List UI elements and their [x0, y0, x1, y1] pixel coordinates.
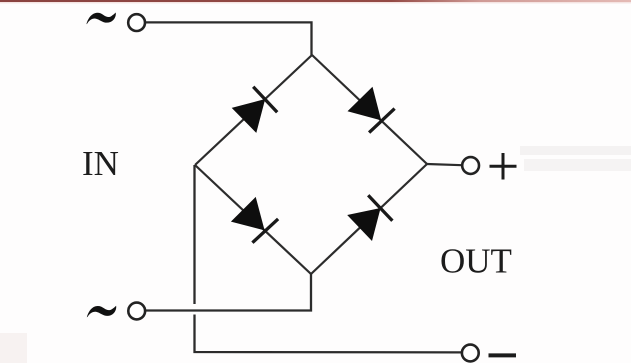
terminal - output: [462, 345, 479, 362]
diode D3: [231, 197, 278, 243]
terminal + output: [462, 157, 479, 174]
wire: bridge right node to + terminal: [427, 164, 462, 165]
AC symbol ~ (top): [86, 13, 115, 25]
wire: bridge left node to top node (D1 branch): [195, 55, 312, 165]
diode D1: [232, 87, 278, 133]
label -: [489, 353, 517, 357]
diode D4: [347, 195, 392, 241]
svg-text:OUT: OUT: [440, 242, 512, 281]
terminal AC1 (top input): [128, 14, 145, 31]
wire: negative rail from crossover to - terminal: [195, 315, 462, 353]
wire: bridge bottom node to right node (D4 branch): [311, 164, 427, 274]
label +: [490, 153, 517, 180]
wire: bridge bottom node to AC2 terminal: [146, 274, 311, 311]
terminal AC2 (bottom input): [128, 303, 145, 320]
diode D2: [348, 87, 395, 133]
wire: bridge top node to right node (D2 branch): [312, 55, 427, 164]
svg-text:IN: IN: [82, 144, 119, 183]
wire: bridge left node to bottom node (D3 branch): [195, 165, 311, 274]
AC symbol ~ (bottom): [87, 306, 116, 318]
wire: AC1 terminal to bridge top node: [146, 22, 312, 55]
wire: bridge left node down to crossover gap: [193, 165, 195, 304]
